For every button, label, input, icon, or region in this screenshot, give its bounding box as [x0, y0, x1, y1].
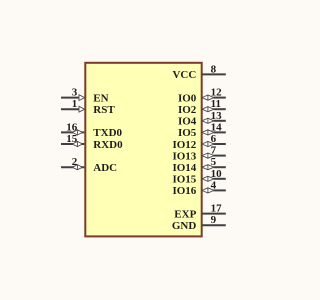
svg-text:6: 6	[211, 133, 217, 145]
svg-text:IO15: IO15	[172, 174, 196, 186]
pin 9 (GND) power	[172, 214, 226, 232]
svg-text:3: 3	[72, 87, 78, 99]
svg-text:IO12: IO12	[172, 139, 196, 151]
wire	[213, 120, 225, 122]
svg-text:8: 8	[211, 63, 217, 75]
svg-text:IO4: IO4	[178, 116, 197, 128]
pin 4 (IO16) bidirectional	[172, 179, 225, 197]
wire	[213, 189, 225, 191]
input arrow	[79, 95, 85, 101]
pin 6 (IO12) bidirectional	[172, 133, 225, 151]
svg-text:14: 14	[211, 121, 223, 133]
wire	[213, 178, 225, 180]
bidir diamond	[202, 188, 214, 193]
svg-text:GND: GND	[172, 220, 197, 232]
bidir diamond	[202, 118, 214, 123]
svg-text:11: 11	[211, 98, 221, 110]
svg-text:EN: EN	[93, 92, 108, 104]
svg-text:RST: RST	[93, 104, 115, 116]
svg-text:2: 2	[72, 156, 78, 168]
pin 13 (IO4) bidirectional	[178, 110, 226, 128]
wire	[213, 166, 225, 168]
pin 15 (RXD0) bidirectional	[61, 133, 123, 151]
wire	[213, 143, 225, 145]
wire	[61, 143, 84, 145]
svg-text:17: 17	[211, 203, 223, 215]
wire	[202, 224, 226, 226]
wire	[213, 97, 225, 99]
bidir diamond	[202, 153, 214, 158]
bidir diamond	[202, 107, 214, 112]
bidir diamond	[72, 130, 82, 135]
svg-text:16: 16	[66, 121, 78, 133]
svg-text:13: 13	[211, 110, 223, 122]
svg-text:EXP: EXP	[174, 208, 196, 220]
svg-text:VCC: VCC	[172, 69, 196, 81]
svg-text:1: 1	[72, 98, 78, 110]
svg-text:IO2: IO2	[178, 104, 197, 116]
pin 8 (VCC) power	[172, 63, 225, 81]
svg-text:ADC: ADC	[93, 162, 117, 174]
bidir diamond	[202, 130, 214, 135]
wire	[202, 73, 226, 75]
pin 10 (IO15) bidirectional	[172, 168, 225, 186]
wire	[61, 97, 79, 99]
bidir diamond	[202, 141, 214, 146]
bidir diamond	[202, 165, 214, 170]
svg-text:10: 10	[211, 168, 223, 180]
svg-text:4: 4	[211, 179, 217, 191]
svg-text:IO0: IO0	[178, 92, 197, 104]
pin 5 (IO14) bidirectional	[172, 156, 225, 174]
wire	[61, 166, 84, 168]
svg-text:5: 5	[211, 156, 217, 168]
svg-text:TXD0: TXD0	[93, 127, 122, 139]
svg-text:IO14: IO14	[172, 162, 196, 174]
svg-text:12: 12	[211, 87, 223, 99]
bidir diamond	[72, 165, 82, 170]
svg-text:15: 15	[66, 133, 78, 145]
IC body U1	[85, 63, 201, 237]
svg-text:9: 9	[211, 214, 217, 226]
svg-text:IO16: IO16	[172, 185, 196, 197]
wire	[61, 108, 79, 110]
pin 3 (EN) input	[61, 87, 109, 105]
pin 7 (IO13) bidirectional	[172, 145, 225, 163]
pin 12 (IO0) bidirectional	[178, 87, 226, 105]
svg-text:RXD0: RXD0	[93, 139, 123, 151]
wire	[213, 155, 225, 157]
svg-text:IO13: IO13	[172, 150, 196, 162]
pin 16 (TXD0) bidirectional	[61, 121, 123, 139]
bidir diamond	[72, 141, 82, 146]
svg-text:IO5: IO5	[178, 127, 197, 139]
pin 14 (IO5) bidirectional	[178, 121, 226, 139]
input arrow	[79, 106, 85, 112]
wire	[213, 131, 225, 133]
wire	[202, 213, 226, 215]
wire	[61, 131, 84, 133]
wire	[213, 108, 225, 110]
pin 2 (ADC) bidirectional	[61, 156, 117, 174]
pin 1 (RST) input	[61, 98, 115, 116]
svg-text:7: 7	[211, 145, 217, 157]
pin 11 (IO2) bidirectional	[178, 98, 226, 116]
bidir diamond	[202, 95, 214, 100]
bidir diamond	[202, 176, 214, 181]
pin 17 (EXP)	[174, 203, 226, 221]
